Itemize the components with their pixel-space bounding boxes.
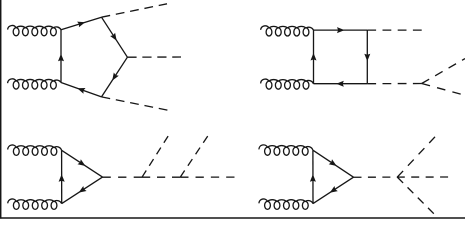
- arrow right on box top edge: [337, 27, 345, 33]
- arrow down on box right edge: [364, 54, 370, 62]
- box bottom edge: [314, 83, 368, 85]
- triangle top edge: [62, 150, 103, 177]
- triangle2 top edge: [313, 150, 354, 177]
- arrow on edge V1-V2: [110, 33, 117, 41]
- arrow on edge V3-BL: [77, 88, 85, 94]
- dashed branch down-right from split vertex: [422, 84, 461, 95]
- dashed scalar propagator to 3-way split: [354, 176, 449, 178]
- arrow on triangle top edge: [78, 159, 86, 166]
- dashed scalar from V1: [102, 4, 168, 17]
- gluon g8 (bottom-right diagram, lower): [259, 199, 313, 209]
- gluon g4 (top-right diagram, lower): [261, 79, 314, 89]
- dashed scalar from box top-right corner: [367, 29, 421, 31]
- dashed scalar propagator segment RV to branch1: [103, 176, 143, 178]
- arrow up on box left edge: [311, 53, 317, 61]
- gluon g7 (bottom-right diagram, upper): [259, 145, 313, 155]
- arrow on triangle2 top edge: [329, 159, 337, 166]
- arrow on edge V2-V3: [112, 73, 119, 81]
- pentagon edge V3-BL: [61, 83, 102, 97]
- dashed branch 2 up-right: [180, 136, 208, 177]
- dashed scalar from V3: [102, 97, 169, 110]
- arrow on triangle2 bottom edge: [330, 186, 338, 193]
- dashed branch 1 up-right: [142, 136, 168, 177]
- pentagon edge V2-V3: [102, 57, 128, 97]
- gluon g1 (top-left diagram, upper): [8, 25, 61, 35]
- pentagon edge V1-V2: [102, 17, 128, 57]
- arrow on edge TL-V1: [77, 22, 85, 28]
- triangle2 bottom edge: [313, 177, 354, 203]
- arrow left on box bottom edge: [336, 81, 344, 87]
- triangle left edge: [61, 150, 63, 203]
- dashed scalar propagator segment branch2 to end: [180, 176, 234, 178]
- left border: [0, 0, 2, 219]
- gluon g6 (bottom-left diagram, lower): [8, 199, 62, 209]
- gluon g3 (top-right diagram, upper): [261, 26, 314, 36]
- arrow up on triangle left edge: [59, 174, 65, 182]
- dashed branch down-right from 3-way split: [397, 177, 434, 214]
- pentagon loop left edge: [60, 30, 62, 83]
- dashed scalar from V2: [127, 56, 181, 58]
- triangle bottom edge: [62, 177, 103, 204]
- pentagon edge TL-V1: [61, 17, 102, 30]
- box top edge: [314, 29, 368, 31]
- box right edge: [366, 30, 368, 84]
- arrow up on pentagon left edge: [58, 54, 64, 62]
- arrow on triangle bottom edge: [79, 186, 87, 193]
- box left edge: [313, 30, 315, 84]
- arrow up on triangle2 left edge: [310, 174, 316, 182]
- dashed branch up-right from 3-way split: [397, 137, 435, 177]
- dashed branch up-right from split vertex: [422, 59, 465, 84]
- dashed scalar propagator segment branch1 to branch2: [142, 176, 180, 178]
- gluon g5 (bottom-left diagram, upper): [8, 145, 62, 155]
- triangle2 left edge: [312, 150, 314, 203]
- gluon g2 (top-left diagram, lower): [8, 79, 61, 89]
- dashed scalar from box bottom-right corner: [367, 83, 421, 85]
- bottom border: [0, 217, 465, 219]
